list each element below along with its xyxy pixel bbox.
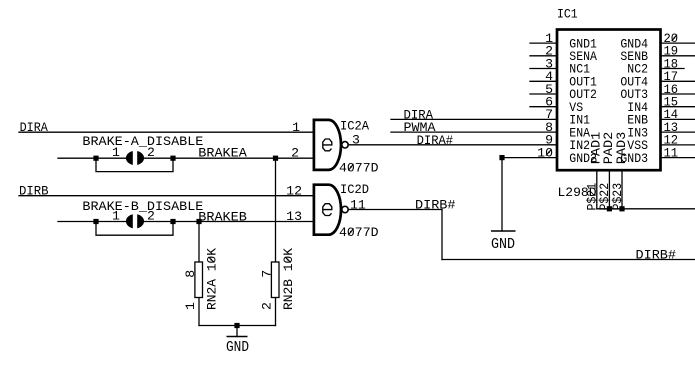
svg-text:3: 3: [352, 133, 360, 148]
svg-text:11: 11: [350, 197, 366, 212]
wire IC1 pin 17 stub: [661, 80, 695, 82]
svg-text:7: 7: [260, 270, 275, 278]
XNOR gate IC2D body: [314, 185, 341, 235]
wire IC1 pad P$22: [608, 170, 610, 209]
wire net DIRB# bottom run to right edge: [442, 259, 695, 261]
svg-text:BRAKE-B_DISABLE: BRAKE-B_DISABLE: [82, 199, 203, 214]
wire net DIRA to IC1 pin 7: [391, 118, 556, 120]
junction node ground rail: [234, 323, 239, 328]
svg-text:P$23: P$23: [610, 183, 625, 211]
wire net BRAKEA row to IC2A pin 2: [58, 157, 314, 159]
svg-text:DIRB#: DIRB#: [636, 248, 677, 263]
wire net DIRB# from IC2D output: [348, 209, 442, 211]
wire RN2B bottom lead: [275, 298, 277, 326]
wire IC1 pin 15 stub: [661, 106, 695, 108]
junction jumper JP-B pin 2: [170, 219, 175, 224]
wire IC1 pin 3 stub: [530, 68, 556, 70]
svg-text:2: 2: [260, 302, 275, 310]
wire IC1 pin 11 stub: [661, 157, 695, 159]
jumper BRAKE-A_DISABLE JP-A body: [126, 149, 144, 168]
wire net DIRA to IC2A pin 1: [19, 131, 314, 133]
svg-text:RN2A 10K: RN2A 10K: [205, 248, 220, 310]
XNOR gate IC2A e symbol: [323, 139, 332, 151]
svg-text:2: 2: [291, 146, 299, 161]
wire net DIRA# from IC2A output to IC1 pin 9: [348, 144, 556, 146]
wire BRAKEB branch down to RN2A: [198, 222, 200, 263]
wire IC1 pad P$21: [596, 170, 598, 209]
svg-text:DIRB: DIRB: [19, 184, 49, 199]
resistor RN2B 10K body: [271, 262, 279, 298]
svg-text:13: 13: [286, 209, 302, 224]
resistor RN2A 10K body: [195, 262, 203, 298]
junction jumper JP-A pin 1: [93, 156, 98, 161]
wire IC1 pin 16 stub: [661, 93, 695, 95]
wire pad bus to right edge: [597, 208, 695, 210]
wire IC1 pin 6 stub: [530, 106, 556, 108]
wire net GND to IC1 pin 10: [502, 157, 556, 159]
svg-text:8: 8: [183, 270, 198, 278]
junction jumper JP-A pin 2: [170, 156, 175, 161]
wire IC1 pin 19 stub: [661, 55, 695, 57]
junction jumper JP-B pin 1: [93, 219, 98, 224]
svg-text:10: 10: [537, 145, 553, 160]
svg-text:BRAKEA: BRAKEA: [198, 146, 247, 161]
svg-text:1: 1: [292, 120, 300, 135]
wire ground stub below rail: [236, 326, 238, 337]
svg-text:RN2B 10K: RN2B 10K: [281, 248, 296, 310]
svg-text:DIRB#: DIRB#: [415, 198, 456, 213]
svg-text:IC2D: IC2D: [340, 182, 369, 197]
ground GND symbol at IC1 pin 10: [491, 231, 516, 253]
wire IC1 pin 13 stub: [661, 131, 695, 133]
XNOR gate IC2D e symbol: [323, 204, 332, 216]
wire IC1 pin 4 stub: [530, 80, 556, 82]
wire IC1 pin 18 stub: [661, 68, 684, 70]
XNOR gate IC2D output bubble: [342, 206, 348, 212]
wire IC1 pin 20 stub: [661, 42, 695, 44]
svg-text:GND: GND: [226, 339, 249, 356]
wire RN2A bottom lead: [198, 298, 200, 326]
svg-text:DIRA#: DIRA#: [417, 133, 454, 148]
XNOR gate IC2A body: [314, 120, 341, 170]
wire IC1 pin 14 stub: [661, 118, 695, 120]
ground GND symbol at resistor rail: [226, 337, 249, 357]
wire IC1 pin 1 stub: [530, 42, 556, 44]
wire net DIRB to IC2D pin 12: [19, 195, 314, 197]
svg-text:PAD3: PAD3: [614, 132, 629, 165]
svg-text:IC1: IC1: [557, 7, 578, 22]
svg-text:4077D: 4077D: [339, 225, 379, 240]
svg-text:DIRA: DIRA: [20, 120, 48, 135]
wire DIRB# vertical jog: [441, 210, 443, 260]
junction node GND at pin 10: [499, 155, 504, 160]
wire net PWMA to IC1 pin 8: [391, 131, 556, 133]
svg-text:BRAKE-A_DISABLE: BRAKE-A_DISABLE: [82, 134, 203, 149]
wire resistor ground rail: [199, 325, 276, 327]
slashed zero marks (font detail): [209, 35, 678, 263]
XNOR gate IC2A output bubble: [342, 142, 348, 148]
jumper BRAKE-B_DISABLE JP-B body: [126, 212, 144, 231]
wire jumper JP-B bypass: [96, 222, 173, 236]
junction pad bus P$22: [607, 206, 612, 211]
junction node BRAKEA branch: [273, 156, 278, 161]
svg-text:BRAKEB: BRAKEB: [198, 210, 247, 225]
wire jumper JP-A bypass: [96, 158, 173, 171]
svg-text:12: 12: [286, 183, 302, 198]
junction pad bus P$23: [619, 206, 624, 211]
wire BRAKEA branch down to RN2B: [275, 158, 277, 262]
svg-text:1: 1: [183, 302, 198, 310]
wire net BRAKEB row to IC2D pin 13: [58, 221, 314, 223]
wire IC1 pin 5 stub: [530, 93, 556, 95]
wire IC1 pad P$23: [621, 170, 623, 209]
IC U1 body IC1 L298D: [557, 30, 661, 171]
svg-text:GND: GND: [491, 236, 515, 253]
svg-text:IC2A: IC2A: [340, 119, 369, 134]
junction node BRAKEB branch: [196, 219, 201, 224]
svg-text:4077D: 4077D: [339, 160, 379, 175]
wire IC1 pin 2 stub: [530, 55, 556, 57]
wire IC1 pin 12 stub: [661, 144, 695, 146]
svg-text:11: 11: [664, 145, 679, 160]
wire GND vertical drop from pin 10: [501, 158, 503, 231]
